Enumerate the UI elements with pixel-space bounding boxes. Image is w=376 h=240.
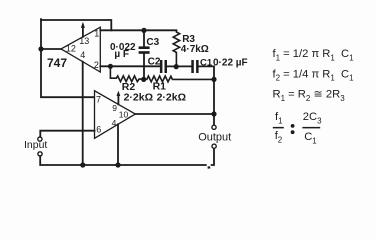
label: R3 bbox=[182, 34, 195, 45]
svg-text:Input: Input bbox=[24, 139, 47, 151]
terminal: input top circle bbox=[38, 137, 42, 141]
svg-text:C2: C2 bbox=[148, 57, 161, 68]
svg-text:f2: f2 bbox=[275, 130, 283, 145]
wire: left rail down to pin 7 feed of U1b bbox=[41, 19, 95, 97]
wire: pin 4 of U1a down to bottom rail bbox=[82, 62, 84, 165]
svg-text:f2 = 1/4 π R1 C1: f2 = 1/4 π R1 C1 bbox=[273, 68, 355, 82]
svg-text:6: 6 bbox=[96, 125, 101, 135]
svg-text:4: 4 bbox=[80, 50, 85, 60]
pin 9 label bbox=[112, 103, 117, 113]
resistor R3 (vertical zigzag) bbox=[173, 30, 179, 66]
node: junction dot at C3 top bbox=[141, 28, 146, 33]
label: R2 bbox=[122, 81, 136, 93]
wire: C3 bottom lead down to R2/R1 junction bbox=[143, 54, 145, 80]
pin 9 supply arrow (up) bbox=[117, 91, 121, 105]
wire: input top terminal riser to pin 6 row bbox=[40, 131, 94, 137]
label: 2.2k value of R1 bbox=[157, 92, 186, 104]
svg-text:4: 4 bbox=[112, 118, 117, 128]
pin 7 label bbox=[96, 94, 101, 104]
svg-text:2·2kΩ: 2·2kΩ bbox=[124, 92, 153, 104]
svg-text:2: 2 bbox=[94, 60, 99, 70]
pin 1 label bbox=[94, 29, 99, 39]
svg-text:R1 = R2 ≅ 2R3: R1 = R2 ≅ 2R3 bbox=[273, 89, 346, 103]
capacitor C1 plates bbox=[191, 60, 198, 73]
svg-text:13: 13 bbox=[79, 36, 89, 46]
node: junction dot pin 2 / R2 branch bbox=[108, 64, 113, 69]
pin 13 supply arrow (up) bbox=[81, 22, 85, 37]
svg-text:747: 747 bbox=[47, 56, 67, 70]
resistor R1 (horizontal zigzag) bbox=[144, 76, 214, 82]
terminal: output bottom circle bbox=[212, 144, 216, 148]
svg-text:Output: Output bbox=[198, 131, 231, 143]
svg-text:f1 = 1/2 π R1 C1: f1 = 1/2 π R1 C1 bbox=[273, 48, 355, 62]
pin 2 label bbox=[94, 60, 99, 70]
pin 6 label bbox=[96, 125, 101, 135]
pin 4 label (U1b) bbox=[112, 118, 117, 128]
label: C2 bbox=[148, 57, 161, 68]
svg-text:f1: f1 bbox=[275, 111, 283, 126]
label: C1 bbox=[200, 57, 213, 68]
svg-text:C3: C3 bbox=[146, 37, 159, 48]
wire: pin 1 output row across to R3 top bbox=[100, 29, 176, 31]
svg-text:7: 7 bbox=[96, 94, 101, 104]
svg-text:2·2kΩ: 2·2kΩ bbox=[157, 92, 186, 104]
formula line 3: R1 = R2 approximately 2 R3 bbox=[273, 89, 346, 103]
svg-text:µ F: µ F bbox=[114, 49, 129, 60]
wire: input bottom riser and bottom rail to output riser bbox=[40, 148, 214, 168]
svg-text:4·7kΩ: 4·7kΩ bbox=[181, 44, 209, 55]
wire: pin 4 of U1b down to bottom rail bbox=[117, 124, 119, 165]
node: junction dot on left rail at pin 12 tap bbox=[38, 46, 43, 51]
terminal: output top circle bbox=[212, 125, 216, 129]
pin 12 label bbox=[66, 44, 76, 54]
wire: top rail from left corner to pin 1 drop bbox=[41, 20, 111, 30]
pin 4 label (U1a) bbox=[80, 50, 85, 60]
formula line 1: f1 = 1/2 pi R1 C1 bbox=[273, 48, 355, 62]
wire: pin 2 row from U1a to C2 left plate bbox=[100, 65, 160, 67]
node: junction dot U1b pin 4 at bottom rail bbox=[115, 162, 120, 167]
op-amp U1b (right-pointing triangle) bbox=[95, 91, 136, 139]
capacitor C2 plates bbox=[160, 60, 167, 73]
label: 4.7k value of R3 bbox=[181, 44, 209, 55]
node: junction dot U1a pin 4 at bottom rail bbox=[80, 162, 85, 167]
label: Input bbox=[24, 139, 47, 151]
label: 0.22 uF value of C1 bbox=[213, 57, 248, 68]
wire: pin 12 link from left rail to U1a apex bbox=[41, 48, 61, 50]
svg-text:12: 12 bbox=[66, 44, 76, 54]
label: R1 bbox=[153, 81, 167, 93]
node: junction dot pin 10 row on output column bbox=[211, 111, 216, 116]
svg-text:2C3: 2C3 bbox=[303, 111, 322, 126]
resistor R2 (horizontal zigzag from pin 2 node) bbox=[110, 66, 143, 81]
node: junction dot R2/R1/C3 bbox=[141, 77, 146, 82]
pin 13 label bbox=[79, 36, 89, 46]
label: 0.022 uF value of C3 bbox=[110, 42, 136, 60]
svg-text:10: 10 bbox=[119, 109, 129, 119]
label: Output bbox=[198, 131, 231, 143]
pin 10 label bbox=[119, 109, 129, 119]
svg-text:1: 1 bbox=[94, 29, 99, 39]
wire: C1 right lead over and down the output column bbox=[199, 66, 214, 125]
wire: pin 10 output row bbox=[135, 113, 214, 115]
svg-text:9: 9 bbox=[112, 103, 117, 113]
label: 747 device name bbox=[47, 56, 67, 70]
wire: C2 to C1 link bbox=[167, 65, 191, 67]
svg-text:C1: C1 bbox=[304, 131, 317, 146]
node: junction dot R1 right end on output column bbox=[211, 77, 216, 82]
label: 2.2k value of R2 bbox=[124, 92, 153, 104]
op-amp U1a (747, left-pointing triangle) bbox=[61, 27, 100, 72]
capacitor C3 plates bbox=[139, 46, 150, 53]
formula ratio: f1/f2 :: 2C3/C1 bbox=[273, 111, 322, 146]
svg-text:0·22 µF: 0·22 µF bbox=[213, 57, 248, 68]
node: junction dot R3 bottom on C2-C1 link bbox=[174, 64, 179, 69]
wire: C3 top lead bbox=[143, 30, 145, 46]
terminal: input bottom circle bbox=[38, 152, 42, 156]
label: C3 bbox=[146, 37, 159, 48]
formula line 2: f2 = 1/4 pi R1 C1 bbox=[273, 68, 355, 82]
